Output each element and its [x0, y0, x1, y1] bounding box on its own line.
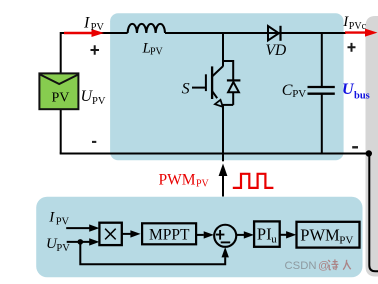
wire summer to PIu: [236, 231, 254, 238]
minus terminal right: [352, 146, 358, 148]
svg-text:PV: PV: [56, 217, 70, 228]
plus terminal left: [91, 45, 100, 55]
IGBT S : collector stem: [222, 32, 224, 66]
wire PV left vertical (bottom): [60, 109, 62, 153]
svg-text:C: C: [282, 82, 293, 99]
antiparallel diode branch (top): [232, 60, 234, 80]
PIu box: [254, 221, 280, 246]
watermark glyph ren: [343, 260, 351, 270]
svg-text:PV: PV: [56, 243, 70, 254]
wire bottom rail: [60, 153, 369, 155]
inductor LPV: [128, 24, 165, 33]
wire PV left vertical (top): [60, 32, 62, 73]
svg-text:I: I: [83, 15, 90, 32]
label IPV (control input): [48, 210, 69, 228]
svg-text:u: u: [271, 233, 277, 245]
svg-text:PWM: PWM: [300, 226, 340, 245]
minus terminal left: [92, 141, 96, 143]
label IPV: [83, 15, 104, 33]
PWM gate drive stub below rail: [222, 154, 224, 162]
PV panel: [39, 73, 78, 109]
svg-text:CSDN: CSDN: [285, 260, 317, 272]
wire UPV into multiplier: [67, 238, 100, 245]
svg-text:PV: PV: [196, 178, 210, 189]
node UPV junction dot: [78, 239, 84, 245]
svg-text:PVc: PVc: [349, 21, 367, 32]
label UPV: [81, 88, 106, 107]
capacitor CPV branch (top): [321, 32, 323, 88]
svg-text:I: I: [48, 210, 55, 226]
diode VD triangle: [268, 26, 279, 40]
grid/load block (gray, cut off at right edge): [366, 16, 378, 277]
svg-text:S: S: [182, 80, 190, 97]
MPPT box: [142, 223, 196, 244]
plus terminal right: [348, 43, 356, 52]
antiparallel diode branch (bottom): [232, 92, 234, 105]
wire MPPT to summer: [196, 231, 214, 238]
wire multiplier to MPPT: [122, 230, 141, 237]
svg-text:PV: PV: [339, 234, 353, 246]
wire top rail right of inductor: [165, 32, 346, 34]
svg-text:bus: bus: [354, 90, 370, 101]
feedback wire UPV to summer: [80, 242, 229, 264]
IGBT S : top jog to diode branch: [222, 60, 233, 62]
PWM gate drive arrow (up): [219, 164, 228, 197]
svg-text:PWM: PWM: [159, 172, 196, 189]
summing junction: [214, 225, 236, 247]
boost converter block background: [110, 13, 344, 160]
label LPV: [142, 40, 164, 57]
label CPV: [282, 82, 307, 100]
PWMPV box: [297, 222, 360, 248]
IGBT S : collector diagonal: [212, 66, 223, 76]
PWM square wave (red): [233, 174, 274, 188]
label UPV (control input): [46, 236, 70, 254]
bottom jog from diode to emitter line: [223, 104, 234, 106]
diode VD cathode bar: [279, 26, 281, 41]
label PWMPV (red): [159, 172, 210, 190]
svg-text:PI: PI: [257, 225, 272, 244]
control block background: [36, 197, 362, 278]
svg-text:PV: PV: [92, 96, 106, 107]
label Ubus (blue): [342, 81, 370, 101]
capacitor CPV plates: [308, 87, 335, 94]
multiplier box: [99, 223, 121, 245]
watermark CSDN: [285, 259, 351, 272]
svg-text:MPPT: MPPT: [149, 226, 190, 243]
IGBT S : body bar: [211, 66, 213, 99]
IGBT S : emitter diagonal with open arrowhead: [212, 91, 223, 107]
svg-text:PV: PV: [91, 22, 105, 33]
svg-text:PV: PV: [150, 47, 164, 58]
antiparallel diode cathode bar: [227, 79, 241, 81]
svg-text:PV: PV: [51, 91, 69, 106]
label IPVc: [342, 14, 366, 32]
node bus- junction dot: [366, 150, 372, 156]
watermark glyph shi: [328, 259, 338, 270]
IGBT S : emitter vertical to bottom rail: [222, 105, 224, 154]
svg-text:VD: VD: [266, 42, 287, 59]
wire top rail: [61, 32, 128, 34]
IGBT S : gate bar: [205, 74, 207, 91]
wire PIu to PWMPV box: [280, 231, 297, 238]
arrow IPV (red, top-left): [64, 29, 104, 37]
wire bus- down and out right: [369, 153, 378, 272]
antiparallel diode triangle: [228, 82, 239, 92]
capacitor CPV branch (bottom): [321, 94, 323, 154]
svg-text:PV: PV: [292, 88, 306, 100]
wire IPV into multiplier: [66, 224, 99, 231]
svg-text:@: @: [318, 260, 329, 272]
arrow IPVc (red, top-right): [345, 29, 378, 37]
IGBT S : gate lead: [192, 87, 206, 89]
